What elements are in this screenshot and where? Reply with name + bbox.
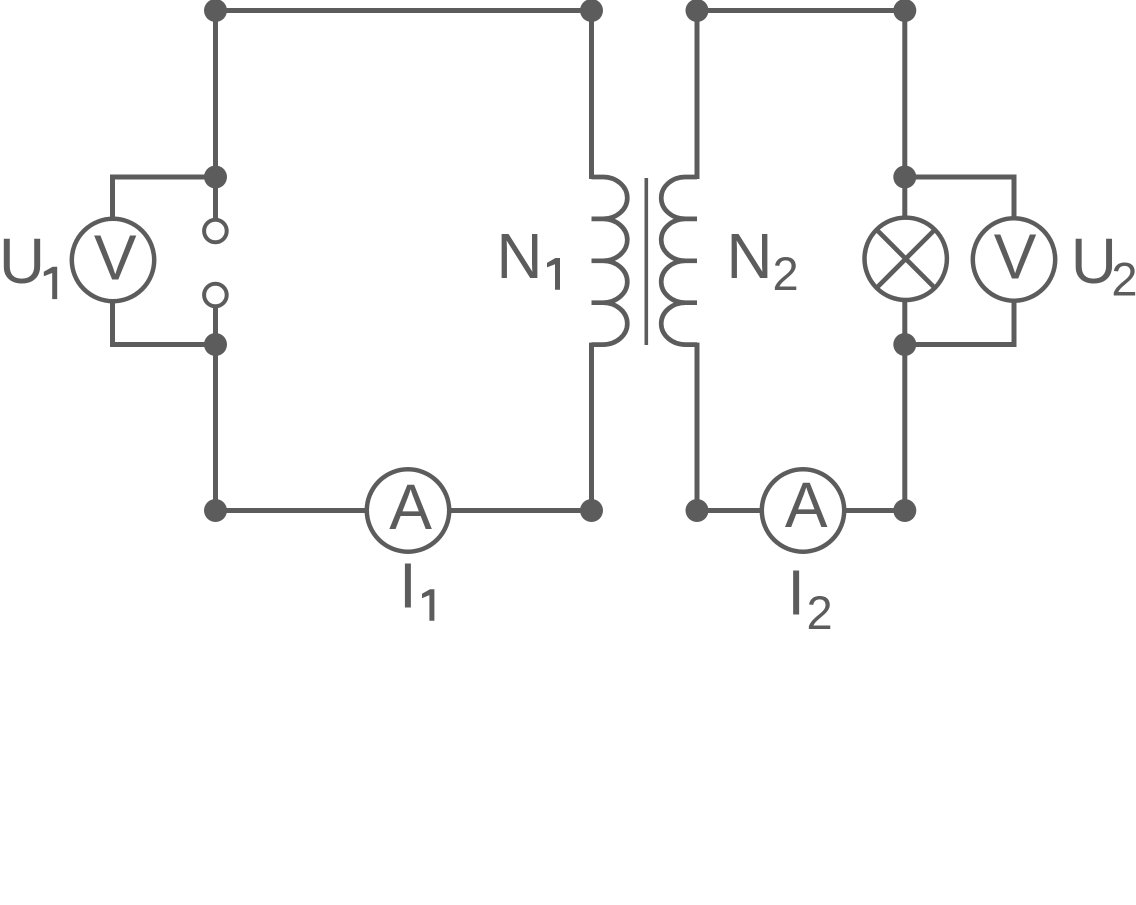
node I bottom of secondary coil [686,499,709,522]
svg-text:N: N [496,220,542,292]
wire bottom secondary left [697,508,762,513]
wire primary coil vertical bottom [589,343,594,511]
voltmeter U2 circle [973,218,1055,300]
node L right lamp bottom junction [893,333,916,356]
node D top right [893,0,916,22]
lamp circle [865,218,947,300]
wire between ammeter A1 and node H [449,508,592,513]
ammeter A2 circle [762,469,844,551]
transformer primary coil N1 [592,177,628,345]
voltmeter U1 letter V [94,222,137,294]
wire top secondary horizontal [697,8,905,13]
svg-text:A: A [785,469,828,541]
label I2 [787,557,832,640]
node C top of secondary coil [686,0,709,22]
wire left vertical upper [213,11,218,219]
svg-text:N: N [726,220,772,292]
node H bottom of primary coil [580,499,603,522]
wire secondary coil vertical top [695,11,700,180]
label N1 [496,220,560,292]
svg-text:V: V [94,222,137,294]
node J bottom right [893,499,916,522]
wire voltmeter U1 top branch [113,177,216,219]
label U1 [0,225,57,299]
transformer secondary coil N2 [661,177,697,345]
voltmeter U2 letter V [994,221,1037,293]
wire between ammeter A2 and node J [844,508,905,513]
svg-text:2: 2 [1111,253,1136,306]
wire primary coil vertical top [589,11,594,180]
svg-text:A: A [389,471,432,543]
node B top of primary coil [580,0,603,22]
node F left voltmeter bottom junction [204,333,227,356]
switch terminal lower open circle [204,284,227,307]
wire right vertical lower [902,300,907,511]
svg-text:2: 2 [773,247,799,300]
lamp cross [875,229,936,290]
wire voltmeter U2 bottom branch [905,301,1014,345]
wire top primary horizontal [216,8,592,13]
wire bottom left horizontal [216,508,368,513]
voltmeter U1 circle [72,219,154,301]
svg-text:I: I [787,557,805,629]
wire voltmeter U1 bottom branch [113,301,216,344]
node A top left [204,0,227,22]
ammeter A1 circle [367,469,449,551]
label N2 [726,220,798,300]
wire secondary coil vertical bottom [695,343,700,511]
ammeter A1 letter A [389,471,432,543]
wire right vertical upper [902,11,907,218]
wire voltmeter U2 top branch [905,177,1014,218]
node G bottom left [204,499,227,522]
node K right lamp top junction [893,166,916,189]
label U2 [1071,225,1136,306]
switch terminal upper open circle [204,220,227,243]
svg-text:U: U [0,225,45,297]
svg-text:2: 2 [807,586,833,639]
transformer core [644,178,648,345]
node E left voltmeter top junction [204,166,227,189]
ammeter A2 letter A [785,469,828,541]
svg-text:U: U [1071,225,1117,297]
label I1 [399,550,434,622]
svg-text:I: I [399,550,417,622]
svg-text:V: V [994,221,1037,293]
wire left vertical lower [213,308,218,511]
